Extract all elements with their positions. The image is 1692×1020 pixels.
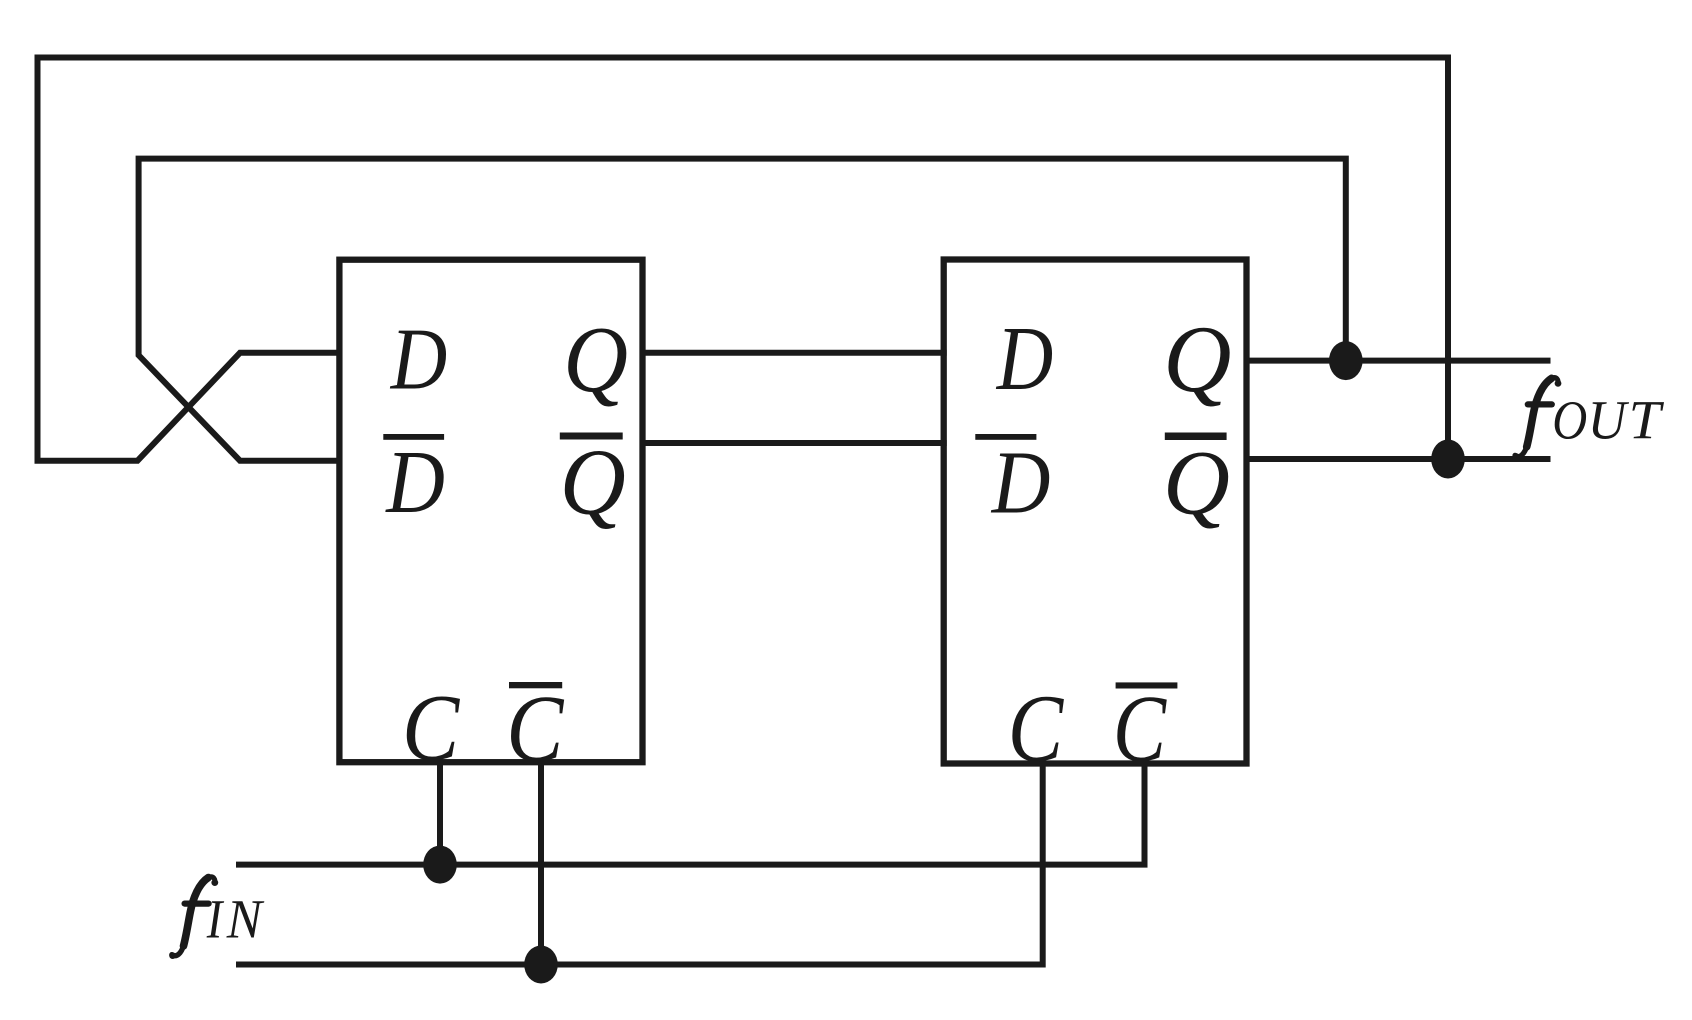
net label fIN: f	[169, 877, 218, 959]
junction dot: node fOUT / outer feedback tap on Q-bar U2	[1431, 440, 1465, 479]
wire: C-bar clock pin U1 down to lower fIN bus	[538, 759, 544, 964]
svg-text:D: D	[996, 309, 1053, 410]
svg-text:C: C	[402, 674, 461, 780]
svg-text:D: D	[390, 311, 447, 408]
svg-text:Q: Q	[560, 430, 626, 534]
overbar of Q-bar pin label, U2	[1165, 433, 1227, 441]
flip-flop U2 body	[944, 260, 1247, 764]
wire: Q output U2 to the right (upper fOUT branch)	[1244, 358, 1551, 364]
svg-text:C: C	[1008, 675, 1065, 782]
overbar of C-bar pin label, U2	[1116, 682, 1178, 688]
svg-text:D: D	[385, 432, 445, 532]
svg-text:I: I	[206, 890, 224, 950]
net label fOUT: f	[1512, 378, 1561, 460]
wire: feedback net fOUT (Q-bar U2) to D input U1, via top-outer run and crossover	[38, 58, 1449, 461]
overbar of D-bar pin label, U1	[383, 434, 444, 440]
flip-flop U1 body	[339, 260, 642, 763]
svg-text:N: N	[226, 889, 265, 950]
svg-text:C: C	[506, 675, 565, 781]
wire: feedback net Q U2 to D-bar input U1, via inner top run and crossover	[139, 159, 1346, 461]
svg-text:T: T	[1629, 390, 1665, 451]
svg-text:Q: Q	[563, 307, 628, 411]
overbar of D-bar pin label, U2	[975, 434, 1036, 440]
junction dot: node Q U2 / inner feedback tap	[1329, 341, 1363, 380]
svg-text:U: U	[1588, 388, 1630, 450]
junction dot: C-bar pin U1 on lower fIN bus	[524, 946, 558, 984]
wire: lower fIN bus and C clock pin U2	[236, 759, 1043, 964]
wire: Q-bar output U2 to fOUT	[1244, 456, 1551, 462]
svg-text:Q: Q	[1163, 432, 1230, 534]
junction dot: C pin U1 on upper fIN bus	[423, 846, 457, 884]
svg-text:D: D	[991, 431, 1051, 532]
svg-text:O: O	[1552, 390, 1587, 451]
wire: C clock pin U1 down to upper fIN bus	[437, 759, 443, 864]
overbar of Q-bar pin label, U1	[560, 433, 623, 440]
wire: Q output U1 to D input U2	[640, 350, 947, 356]
wire: upper fIN bus and C-bar clock pin U2	[236, 759, 1145, 864]
wire: Q-bar output U1 to D-bar input U2	[640, 440, 947, 446]
svg-text:C: C	[1113, 676, 1168, 781]
overbar of C-bar pin label, U1	[509, 682, 562, 688]
svg-text:Q: Q	[1163, 305, 1231, 412]
